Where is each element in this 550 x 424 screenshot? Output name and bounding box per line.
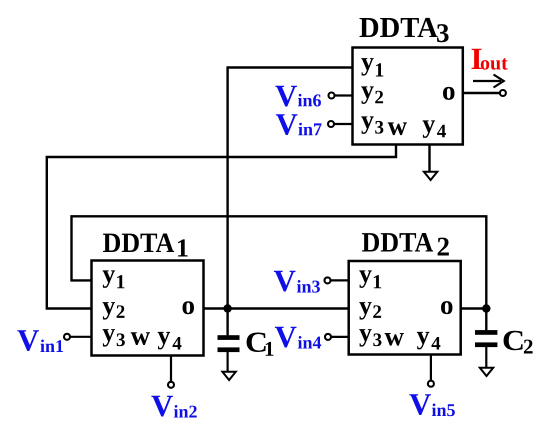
terminal Vin5 (428, 381, 434, 387)
wire DDTA2.o to node B (460, 307, 486, 309)
wire net DDTA3.w to DDTA1.y2 (47, 145, 396, 309)
terminal Vin2 (168, 382, 174, 388)
pin y2 of DDTA1 (103, 302, 125, 320)
pin y3 of DDTA1 (103, 329, 125, 347)
pin y4 of DDTA2 (417, 332, 440, 350)
terminal Vin6 (329, 93, 335, 99)
wire Vin1 to DDTA1.y3 (70, 336, 92, 338)
pin o of DDTA3 (443, 87, 454, 100)
wire DDTA1.o to DDTA2.y2 (204, 307, 349, 309)
Iout current arrow (473, 75, 504, 88)
label Vin4 (275, 327, 321, 349)
label C2 (504, 331, 533, 354)
wire DDTA2.y4 to Vin5 (430, 355, 432, 381)
pin o of DDTA1 (183, 301, 194, 314)
pin y1 of DDTA3 (361, 58, 383, 76)
terminal Vin1 (64, 334, 70, 340)
wire DDTA3.y4 to ground (428, 145, 430, 172)
label Vin5 (409, 394, 455, 416)
wire net DDTA2.o node B to DDTA1.y1 (72, 216, 487, 308)
label DDTA3 (360, 18, 449, 42)
ground of C2 (480, 368, 493, 376)
label Vin6 (275, 86, 321, 107)
pin y2 of DDTA2 (359, 302, 381, 320)
pin w of DDTA3 (388, 122, 407, 135)
label Vin7 (276, 114, 322, 135)
wire Vin7 to DDTA3.y3 (334, 123, 353, 125)
pin y3 of DDTA3 (361, 116, 383, 134)
wire DDTA1.y4 to Vin2 (170, 356, 172, 382)
label DDTA1 (103, 234, 188, 257)
ground of DDTA3.y4 (424, 172, 437, 180)
terminal Vin7 (328, 121, 334, 127)
pin w of DDTA1 (131, 332, 150, 345)
capacitor C1 (218, 309, 240, 372)
wire DDTA3 output (463, 92, 500, 94)
wire Vin3 to DDTA2.y1 (331, 279, 349, 281)
label DDTA2 (362, 233, 449, 255)
pin y2 of DDTA3 (361, 86, 383, 104)
pin y4 of DDTA3 (423, 120, 446, 138)
node A junction dot (223, 304, 231, 312)
capacitor C2 (475, 309, 497, 368)
pin y3 of DDTA2 (359, 329, 381, 347)
wire Vin6 to DDTA3.y2 (335, 94, 353, 96)
node B junction dot (482, 304, 490, 312)
wire Vin4 to DDTA2.y3 (331, 336, 349, 338)
pin o of DDTA2 (441, 301, 452, 314)
pin y4 of DDTA1 (158, 332, 182, 350)
op-amp U3 DDTA3 box (353, 48, 463, 145)
terminal Vin3 (325, 277, 331, 283)
pin y1 of DDTA1 (103, 270, 125, 288)
label Vin1 (17, 330, 63, 352)
ground of C1 (222, 372, 235, 380)
pin w of DDTA2 (385, 333, 404, 346)
wire net DDTA3.y1 feedback from node A (228, 68, 353, 309)
pin y1 of DDTA2 (359, 270, 381, 288)
label Vin3 (274, 271, 320, 293)
label C1 (247, 332, 274, 355)
op-amp U2 DDTA2 box (349, 261, 461, 355)
label Iout (472, 49, 508, 70)
label Vin2 (151, 396, 196, 418)
terminal Vin4 (325, 334, 331, 340)
op-amp U1 DDTA1 box (92, 261, 204, 356)
terminal Iout output (500, 90, 506, 96)
